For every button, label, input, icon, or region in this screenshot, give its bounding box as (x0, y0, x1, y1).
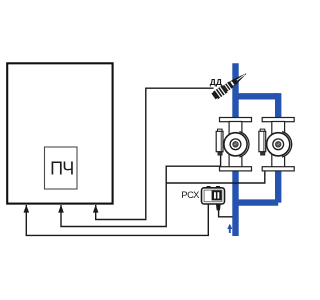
pressure sensor DD (211, 70, 249, 100)
label PCX (181, 189, 200, 200)
input arrow 3 (93, 205, 99, 213)
wire PCX switch to input 1 (26, 204, 208, 235)
cabinet box (7, 63, 112, 203)
wire sensor to input 3 (96, 88, 214, 219)
pipe bottom connector (236, 199, 279, 205)
pressure switch PCX (202, 186, 225, 210)
input arrow 1 (24, 205, 30, 213)
wire PCX capillary to pipe (219, 210, 233, 217)
svg-text:РСХ: РСХ (181, 189, 200, 200)
label DD (210, 77, 222, 87)
wire pumps to input 2 (61, 153, 265, 227)
svg-text:ПЧ: ПЧ (50, 159, 73, 179)
pipe main vertical (232, 63, 238, 236)
pump P2 (259, 118, 294, 171)
flow direction arrow (227, 224, 232, 233)
pipe top connector (236, 93, 279, 99)
frequency converter box PCH (45, 147, 78, 189)
pump P1 (216, 118, 251, 171)
input arrow 2 (58, 205, 64, 213)
svg-text:ДД: ДД (210, 77, 222, 87)
pipe right vertical (275, 93, 281, 203)
